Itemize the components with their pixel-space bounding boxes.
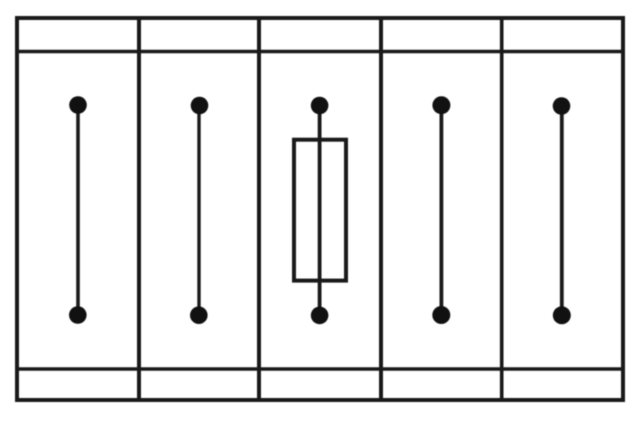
divider between block 3 and 4 [379,16,383,402]
terminal block 5 bottom terminal [553,306,571,324]
terminal block 1 bottom terminal [69,306,87,324]
terminal block 5 top terminal [553,97,571,115]
top band separator [15,50,625,53]
terminal block 4 wire [439,105,443,315]
terminal block 3 bottom terminal [311,307,329,325]
terminal block 2 wire [197,106,200,316]
divider between block 4 and 5 [500,16,504,402]
terminal block 5 wire [560,106,564,315]
divider between block 2 and 3 [257,16,261,402]
terminal block 3 top terminal [311,97,329,115]
divider between block 1 and 2 [137,16,141,402]
terminal block 2 top terminal [191,97,209,115]
bottom band separator [15,367,625,371]
terminal block 4 top terminal [432,96,450,114]
terminal block 1 top terminal [69,96,87,114]
fuse F1 body [294,140,346,281]
terminal block 3 wire [318,105,322,315]
terminal block 2 bottom terminal [190,306,208,324]
terminal block 4 bottom terminal [432,306,450,324]
terminal block 1 wire [76,105,80,314]
